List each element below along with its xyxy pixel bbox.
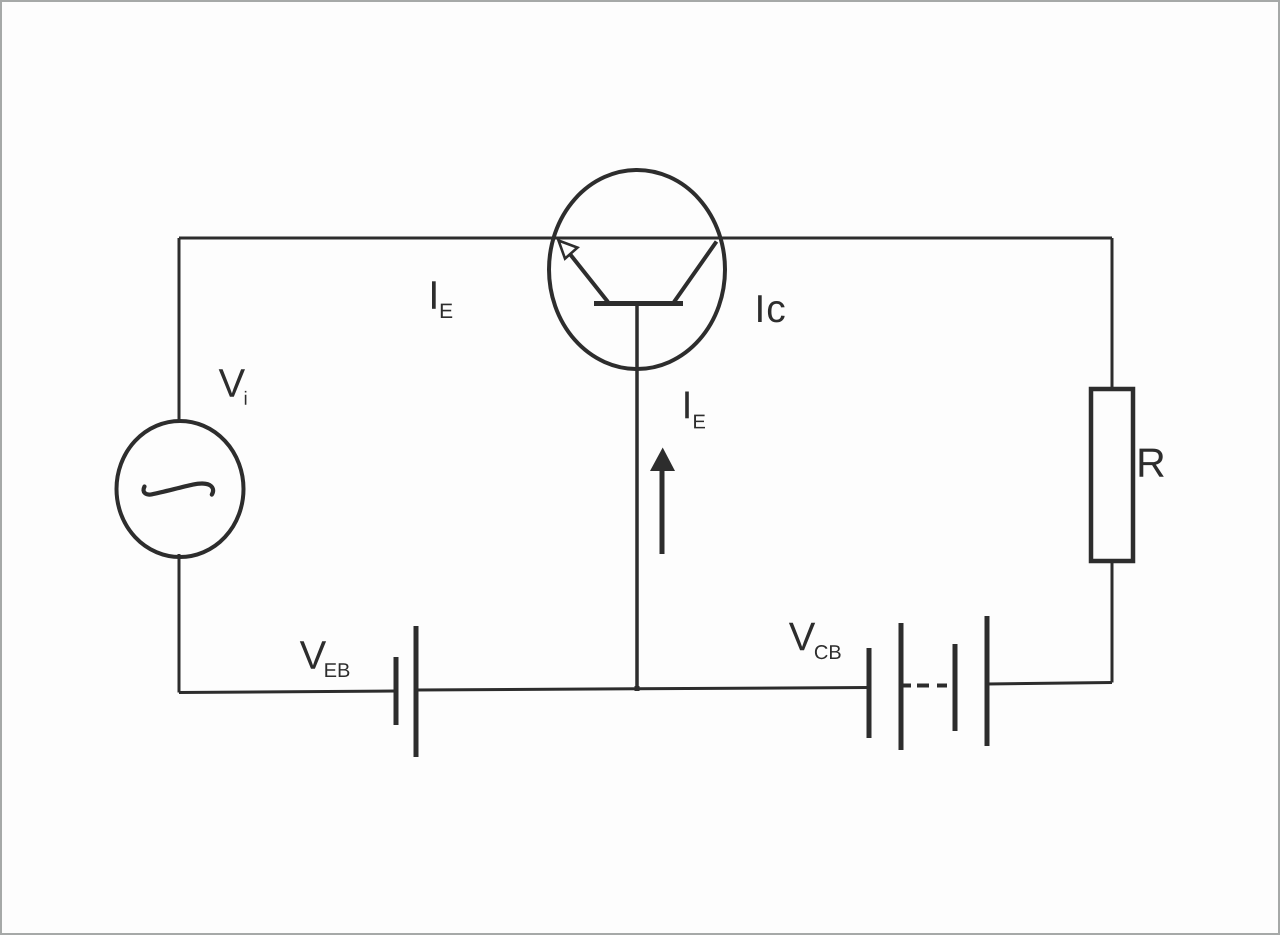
wire: right branch upper (top bus to resistor) — [1111, 238, 1114, 389]
label IE (emitter current, upper-left of transistor) — [432, 281, 452, 318]
arrow: IE current direction (upward) — [650, 448, 675, 555]
battery VCB (two cells with dashed mid-link) — [869, 616, 987, 750]
junction: emitter lead meets bottom bus — [635, 686, 640, 691]
wire: bottom bus middle segment (VEB to VCB through emitter junction) — [416, 688, 869, 691]
label VCB — [789, 623, 841, 660]
wire: emitter lead from transistor base-bar down to bottom bus — [635, 305, 639, 690]
label R — [1140, 449, 1164, 477]
AC source Vi — [117, 421, 244, 557]
label Ic (collector current) — [758, 295, 785, 322]
wire: bottom bus left segment (left branch to VEB) — [179, 691, 396, 693]
label IE (emitter current, along emitter lead) — [685, 392, 705, 429]
label VEB — [300, 641, 350, 677]
wire: right branch lower (bottom bus to resistor) — [1111, 561, 1114, 683]
transistor Q1 (PNP, common-base) — [549, 170, 725, 369]
wire: left branch upper (top bus to Vi source) — [178, 238, 181, 424]
battery VEB — [396, 626, 416, 757]
label Vi — [219, 369, 247, 405]
resistor R — [1091, 389, 1133, 561]
wire: left branch lower (Vi source to bottom bus) — [178, 554, 181, 693]
wire: bottom bus right segment (VCB to right branch) — [987, 683, 1112, 685]
wire: top bus from left branch to right branch — [179, 237, 1112, 240]
